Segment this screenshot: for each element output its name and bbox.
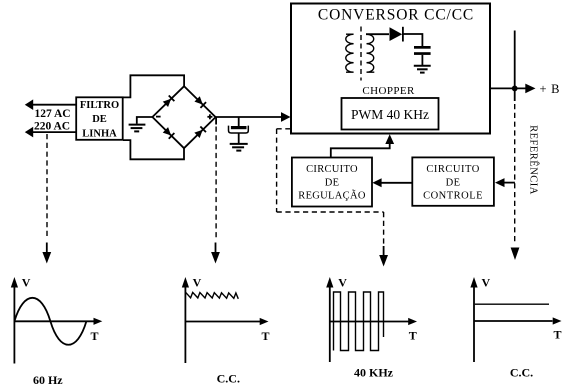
wire AC input bottom — [33, 131, 77, 133]
svg-text:CIRCUITO: CIRCUITO — [426, 164, 479, 175]
wire dashed tap at AC input — [46, 134, 48, 238]
wire filtro to bridge bottom — [123, 140, 184, 159]
label CIRCUITO DE REGULACAO — [298, 164, 366, 202]
arrow into regulacao — [372, 178, 381, 187]
axis V (graph 2) — [184, 286, 186, 364]
svg-text:CIRCUITO: CIRCUITO — [306, 164, 358, 175]
svg-text:T: T — [262, 329, 270, 343]
diode D5 (output rectifier) — [390, 27, 403, 41]
arrow down to 40KHz waveform — [379, 246, 388, 267]
label plus at bridge — [207, 114, 212, 119]
sine wave 60Hz — [14, 298, 86, 345]
label FILTRO DE LINHA — [80, 100, 119, 139]
svg-text:REGULAÇÃO: REGULAÇÃO — [298, 190, 366, 202]
graph 2: rectified C.C. sawtooth — [182, 277, 269, 363]
graph 1: 60 Hz sine — [11, 277, 103, 364]
svg-text:+ B: + B — [540, 82, 560, 96]
arrow into conversor bottom — [385, 134, 394, 144]
block CIRCUITO DE REGULACAO box — [292, 158, 372, 207]
graph 3: 40 KHz square wave — [326, 277, 417, 362]
wire capacitor to ground — [421, 55, 423, 66]
arrow into conversor — [281, 112, 291, 122]
svg-text:T: T — [91, 329, 99, 343]
axis T (graph 3) — [330, 321, 409, 323]
wire secondary to diode — [366, 33, 389, 35]
transformer T1 secondary winding — [367, 34, 375, 72]
svg-text:PWM 40 KHz: PWM 40 KHz — [351, 107, 429, 122]
svg-text:220 AC: 220 AC — [34, 121, 70, 133]
diode D3 (bridge bottom-left) — [163, 127, 175, 139]
svg-text:T: T — [409, 328, 417, 342]
axis V (graph 3) — [329, 286, 331, 363]
diode D4 (bridge bottom-right) — [194, 126, 206, 138]
svg-text:CONTROLE: CONTROLE — [423, 191, 483, 202]
svg-text:DE: DE — [446, 177, 461, 188]
block FILTRO DE LINHA box — [76, 97, 123, 140]
ground G2 — [414, 66, 431, 73]
square wave 40KHz — [334, 292, 384, 351]
wire conversor output +B — [490, 87, 526, 89]
capacitor C2 — [414, 46, 431, 55]
svg-text:CONVERSOR CC/CC: CONVERSOR CC/CC — [318, 7, 474, 24]
wire regulacao to PWM — [331, 144, 390, 158]
wire referencia (dashed) — [514, 104, 516, 245]
svg-text:REFERÊNCIA: REFERÊNCIA — [527, 125, 539, 195]
svg-text:DE: DE — [92, 114, 107, 125]
svg-text:V: V — [193, 276, 202, 290]
svg-text:V: V — [22, 276, 31, 290]
diode D1 (bridge top-left) — [163, 95, 175, 107]
svg-text:CHOPPER: CHOPPER — [362, 85, 415, 97]
svg-text:FILTRO: FILTRO — [80, 100, 119, 111]
wire filtro to bridge top — [123, 75, 184, 97]
axis T (graph 2) — [185, 321, 260, 323]
wire referencia to controle — [505, 182, 515, 184]
svg-text:40 KHz: 40 KHz — [354, 366, 394, 380]
wire dashed PWM tap path — [277, 129, 384, 246]
axis V (graph 1) — [13, 286, 15, 364]
label CIRCUITO DE CONTROLE — [423, 164, 483, 202]
arrow down to C.C. waveform — [211, 243, 220, 264]
sawtooth ripple wave — [186, 292, 239, 299]
svg-text:C.C.: C.C. — [510, 365, 533, 379]
arrow AC input top (left) — [25, 99, 33, 110]
axis T (graph 1) — [14, 320, 94, 322]
arrow +B output — [525, 84, 535, 94]
wire diode to capacitor corner — [402, 34, 422, 46]
arrow AC input bottom (left) — [25, 127, 33, 138]
svg-text:V: V — [482, 276, 491, 290]
diode D2 (bridge top-right) — [194, 96, 206, 108]
transformer T1 primary winding — [346, 34, 354, 72]
wire dashed tap at rectified DC — [215, 127, 217, 238]
arrow referencia down (to C.C. waveform) — [511, 248, 520, 261]
svg-text:60 Hz: 60 Hz — [33, 373, 63, 386]
wire stub to C1 — [238, 117, 240, 126]
wire controle to regulacao — [381, 182, 412, 184]
ground G3 — [230, 144, 248, 151]
block U1 CONVERSOR CC/CC box — [291, 4, 490, 134]
svg-text:DE: DE — [325, 178, 340, 189]
wire bridge left vertex to ground — [137, 117, 153, 124]
wire stub below bridge output — [215, 117, 217, 125]
svg-text:LINHA: LINHA — [82, 128, 117, 139]
block PWM 40 KHz box — [342, 98, 439, 130]
svg-text:V: V — [338, 276, 347, 290]
constant DC level line — [475, 303, 549, 305]
node junction +B — [512, 86, 518, 92]
ground G1 — [129, 125, 146, 132]
wire bridge output to conversor — [216, 116, 282, 118]
block CIRCUITO DE CONTROLE box — [412, 157, 494, 205]
wire AC input top — [33, 104, 77, 106]
svg-text:C.C.: C.C. — [217, 371, 240, 385]
axis T (graph 4) — [474, 320, 553, 322]
label minus at bridge — [156, 116, 161, 118]
svg-text:T: T — [554, 328, 562, 342]
wire C1 to ground — [238, 133, 240, 143]
axis V (graph 4) — [473, 286, 475, 363]
transformer T1 core (dashed) — [360, 27, 362, 81]
bridge rectifier diamond — [152, 86, 215, 148]
wire +B vertical stub — [514, 31, 516, 102]
graph 4: C.C. constant — [470, 277, 561, 362]
capacitor C1 (filter electrolytic) — [231, 126, 247, 129]
arrow down to 60Hz waveform — [42, 243, 51, 264]
arrow into controle — [495, 178, 505, 187]
svg-text:127 AC: 127 AC — [35, 108, 71, 120]
